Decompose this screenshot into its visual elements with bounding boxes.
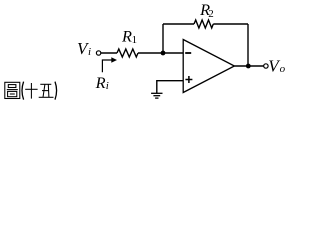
- svg-text:i: i: [88, 46, 91, 58]
- node B output junction: [246, 64, 251, 69]
- caption glyph ): [55, 82, 57, 100]
- wire top left to R2: [163, 23, 194, 25]
- svg-text:i: i: [106, 80, 109, 92]
- svg-text:R: R: [95, 73, 106, 92]
- figure caption 圖(十五) drawn as strokes: [5, 82, 57, 100]
- wire node A to inverting input: [163, 52, 184, 54]
- svg-text:1: 1: [132, 34, 138, 46]
- caption glyph 五: [39, 84, 54, 97]
- resistor R1: [117, 49, 138, 57]
- wire op-amp output to Vo terminal: [234, 65, 263, 67]
- wire Vi terminal to R1: [101, 52, 117, 54]
- svg-text:R: R: [121, 27, 132, 46]
- label Vo: [268, 56, 285, 75]
- op-amp inverting pin marker: [185, 52, 191, 54]
- caption glyph 十: [25, 83, 37, 99]
- caption glyph 圖: [5, 82, 20, 98]
- node A junction: [161, 51, 166, 56]
- label R2: [199, 0, 214, 20]
- resistor R2: [194, 20, 213, 28]
- input terminal Vi: [96, 51, 100, 55]
- wire R1 to node A: [138, 52, 163, 54]
- wire feedback vertical right: [247, 24, 249, 66]
- ground: [151, 93, 162, 98]
- op-amp U1: [183, 40, 234, 93]
- op-amp non-inverting pin marker: [185, 76, 192, 83]
- arrow for input resistance Ri: [102, 57, 117, 72]
- wire non-inverting input to ground: [157, 81, 183, 93]
- wire R2 to feedback corner: [213, 23, 248, 25]
- caption glyph (: [22, 82, 24, 100]
- svg-text:o: o: [280, 63, 286, 75]
- output terminal Vo: [264, 64, 268, 68]
- wire feedback vertical left: [162, 24, 164, 53]
- label Vi: [77, 39, 91, 58]
- svg-text:2: 2: [208, 8, 214, 20]
- label R1: [121, 27, 137, 47]
- label Ri: [95, 73, 109, 92]
